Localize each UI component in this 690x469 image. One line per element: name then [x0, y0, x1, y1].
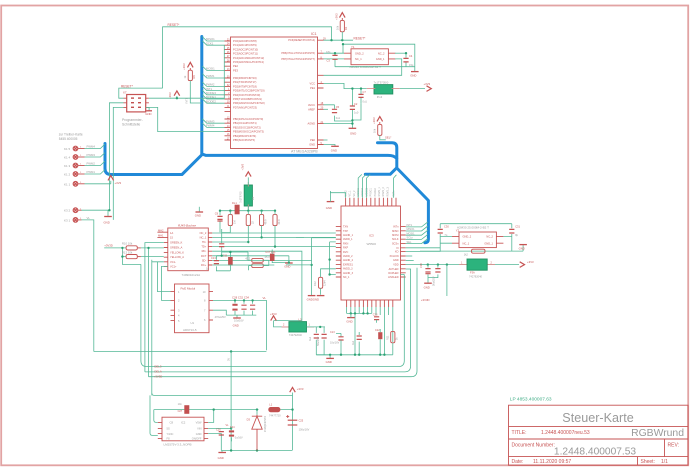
junction bottom row dots: [350, 312, 369, 314]
svg-text:PWM4: PWM4: [206, 124, 215, 128]
svg-text:TXP: TXP: [343, 230, 348, 233]
wire RJ45 pin14 down long vertical DELA: [145, 243, 164, 372]
capacitor C2: [350, 87, 359, 128]
svg-text:C7: C7: [363, 90, 367, 94]
ground symbol GND at X7: [145, 107, 152, 115]
svg-text:YELLOW_A: YELLOW_A: [170, 255, 184, 259]
wire GND pin to bottom rail: [208, 434, 221, 451]
svg-text:56u/25V: 56u/25V: [432, 276, 436, 286]
svg-text:+3V3: +3V3: [372, 117, 376, 124]
wire LDO out to +3V3: [400, 88, 425, 90]
svg-text:TITLE:: TITLE:: [512, 430, 527, 436]
svg-text:AVDD_2: AVDD_2: [343, 255, 353, 258]
svg-text:GND: GND: [326, 360, 332, 364]
wire vertical into LM ONOFF: [150, 395, 158, 435]
supply +3V3 arrow at X7: [168, 91, 180, 99]
ground symbol GND at Y1: [410, 72, 418, 78]
svg-text:PE2: PE2: [233, 64, 238, 68]
capacitor C26: [229, 426, 243, 441]
ground symbol GND pair below R12: [307, 296, 325, 302]
svg-text:IC1: IC1: [311, 32, 317, 36]
svg-text:GND: GND: [410, 73, 416, 77]
ground symbol GND at K3: [104, 217, 112, 225]
wire PE0 stub: [324, 139, 328, 141]
svg-text:MISO: MISO: [392, 230, 398, 233]
wire XCLKIN stub: [406, 255, 413, 257]
svg-text:TD-: TD-: [202, 240, 206, 244]
wire +3V3D to R10 R13: [104, 248, 141, 265]
IC3 left pin names: [343, 226, 354, 279]
svg-text:NC_1: NC_1: [463, 241, 470, 245]
wire net SCK1 from IC1 to bus: [202, 41, 224, 46]
svg-text:470u/25V: 470u/25V: [215, 315, 226, 319]
svg-text:C11: C11: [223, 253, 228, 257]
ground symbol GND below C17b: [326, 354, 334, 364]
wire TD- to IC3 row: [212, 236, 335, 238]
svg-text:PB4(MISO/PCINT4): PB4(MISO/PCINT4): [233, 134, 256, 138]
capacitor C31: [509, 224, 520, 252]
svg-text:SCK1: SCK1: [206, 41, 214, 45]
svg-text:ON/OFF: ON/OFF: [192, 437, 202, 441]
resistor R9 pull-up near X7: [183, 68, 202, 103]
wire caps bottom row to GND: [226, 315, 256, 318]
svg-text:PWM4: PWM4: [87, 145, 96, 149]
svg-text:GNDGND: GNDGND: [307, 297, 319, 301]
wire U1 pin1 left loop: [158, 262, 171, 292]
svg-text:PoE Modul: PoE Modul: [181, 287, 196, 291]
svg-text:A2M30 25.000M-2-B2 T: A2M30 25.000M-2-B2 T: [457, 226, 489, 230]
junction X7 vcc: [176, 97, 178, 99]
fuse F2 body: [239, 177, 255, 210]
wire net +3V3D loop: [149, 268, 418, 379]
capacitor C21b series filled on rail: [178, 403, 190, 414]
ground symbol GND below IC1 area: [326, 191, 335, 210]
connector K3.2: [64, 208, 82, 213]
op IC1 microcontroller body: [231, 37, 318, 149]
svg-text:MOSI1: MOSI1: [206, 67, 215, 71]
svg-text:PWM3: PWM3: [87, 153, 96, 157]
svg-text:PD1(TXD/PCINT17): PD1(TXD/PCINT17): [233, 80, 256, 84]
svg-text:GND: GND: [393, 259, 399, 262]
capacitor C34: [250, 299, 255, 315]
svg-text:RESET*: RESET*: [168, 23, 181, 27]
crystal Y1 body: [344, 45, 395, 69]
svg-text:RXN: RXN: [343, 242, 348, 245]
wire RESET into X7: [119, 88, 163, 98]
wire net PWM1 K1.2 to bus: [85, 170, 105, 175]
ground symbol GND supply: [218, 451, 226, 460]
svg-text:VL: VL: [87, 216, 91, 220]
IC3 right pin names: [388, 226, 399, 279]
svg-text:GND_1: GND_1: [376, 57, 385, 61]
svg-text:R9: R9: [192, 75, 196, 79]
svg-text:10u/16V: 10u/16V: [330, 341, 340, 344]
wire AGND to gnd run: [324, 123, 353, 125]
svg-text:NC_1: NC_1: [355, 57, 362, 61]
wire XTAL1 IC1 to Y1: [324, 52, 345, 54]
svg-text:100u/16V: 100u/16V: [299, 429, 310, 432]
wire supply corner to +3V3 arrow bottom: [152, 393, 293, 395]
svg-text:GND: GND: [218, 456, 224, 460]
svg-text:7x1T9705: 7x1T9705: [239, 191, 243, 203]
svg-text:IC2: IC2: [181, 420, 186, 424]
capacitor C9: [215, 210, 223, 233]
wire net 3V3D stub right of IC3: [446, 265, 448, 296]
capacitor C11 filled: [223, 252, 233, 271]
svg-text:74477720: 74477720: [269, 414, 281, 418]
supply +3V3 arrow at K1.1: [108, 176, 122, 186]
capacitor C13b bottom: [330, 331, 344, 355]
capacitor C4: [395, 52, 414, 67]
svg-text:A2M30 8.000MHZ B2 T: A2M30 8.000MHZ B2 T: [350, 65, 382, 69]
junction C11 top: [221, 255, 223, 257]
bus spur upper knot: [378, 143, 397, 158]
svg-text:GND: GND: [346, 319, 352, 323]
capacitor C8 middle: [219, 237, 224, 252]
ground symbol GND at Y2: [519, 245, 527, 251]
IC1 pin number 29 right: [321, 38, 327, 145]
svg-text:5S: 5S: [167, 427, 170, 431]
capacitor C28: [232, 299, 237, 315]
svg-text:GREEN_K: GREEN_K: [170, 241, 183, 245]
connector K1.5: [64, 146, 85, 151]
svg-text:W5500: W5500: [367, 242, 377, 246]
junction R6 bottom: [274, 245, 276, 247]
wire Y2 bottom to gnd: [420, 236, 523, 251]
inductor DL1 on rail: [232, 201, 240, 214]
svg-text:0u1: 0u1: [363, 100, 368, 104]
svg-text:10u/16V: 10u/16V: [234, 319, 244, 323]
IC3 bottom pin stubs: [347, 300, 393, 307]
wire net RSTn to bus above IC3: [394, 175, 397, 198]
svg-text:LP 4853.400007.63: LP 4853.400007.63: [510, 397, 552, 403]
svg-text:DEL3: DEL3: [154, 364, 161, 368]
junction VSW rail: [213, 408, 215, 410]
resistor R4: [246, 211, 254, 243]
wire net MOSI1 IC3 to bus: [406, 230, 428, 235]
svg-text:MOSI: MOSI: [392, 234, 399, 237]
svg-text:SEL*: SEL*: [385, 136, 392, 140]
svg-text:NC_1: NC_1: [343, 276, 350, 279]
svg-text:12k4: 12k4: [323, 280, 327, 286]
wire net PWM4 from IC1 to bus: [202, 123, 224, 128]
svg-text:C27: C27: [178, 410, 183, 413]
svg-text:PWM2: PWM2: [87, 162, 96, 166]
svg-text:PC4(ADC4/SDA/PCINT12): PC4(ADC4/SDA/PCINT12): [233, 56, 264, 60]
connector K1.4: [64, 155, 85, 160]
svg-text:F2: F2: [251, 196, 255, 200]
svg-text:AGND: AGND: [308, 122, 316, 126]
wire net PWM1 from IC1 to bus: [202, 74, 224, 79]
capacitor C16: [419, 263, 431, 283]
svg-text:K3 1: K3 1: [64, 218, 71, 222]
wire X7 middle pin down-left: [109, 103, 123, 210]
svg-text:SEL: SEL: [407, 240, 412, 244]
svg-text:C3: C3: [327, 59, 331, 63]
capacitor C32: [241, 299, 246, 315]
wire net MODE1 from IC1 to bus: [202, 95, 224, 100]
IC1 left pin stubs: [225, 41, 231, 140]
svg-text:RGBWrund: RGBWrund: [631, 428, 684, 439]
wire RD+ row to network: [212, 251, 302, 252]
svg-text:GND_2: GND_2: [355, 51, 364, 55]
svg-text:GND: GND: [326, 206, 332, 210]
junction rail dots: [229, 210, 276, 212]
svg-text:PC1(ADC1/PCINT9): PC1(ADC1/PCINT9): [233, 43, 257, 47]
ferrite bead L3 body: [282, 318, 315, 337]
svg-text:R13 10k: R13 10k: [122, 250, 133, 254]
svg-text:AVDD_1: AVDD_1: [343, 238, 353, 241]
IC1 right pin stubs: [318, 40, 324, 144]
svg-text:1.2448.400007neu.53: 1.2448.400007neu.53: [541, 430, 590, 436]
resistor R13: [122, 250, 164, 258]
svg-text:+3V3: +3V3: [270, 312, 277, 316]
junction bottom rail dots: [340, 354, 386, 356]
svg-text:R11: R11: [386, 335, 389, 340]
wire net SCK1 IC3 to bus: [406, 234, 428, 239]
junction x311: [310, 264, 312, 266]
capacitor C12 right of L3: [309, 327, 319, 355]
svg-text:PD3(INT1/OC2B/PCINT19): PD3(INT1/OC2B/PCINT19): [233, 89, 265, 93]
regulator U3 ldo body: [367, 80, 400, 99]
svg-text:Y1: Y1: [351, 45, 355, 49]
wire vertical x302 down: [274, 253, 302, 321]
svg-text:+3V3: +3V3: [115, 181, 122, 185]
svg-text:PD5(T1/OC0B/PCINT21): PD5(T1/OC0B/PCINT21): [233, 97, 262, 101]
wire net MISO1 IC3 to bus: [406, 226, 428, 231]
capacitor C22 bottom filled: [375, 329, 382, 355]
svg-text:C17 C21: C17 C21: [265, 250, 276, 254]
wire exres row: [321, 269, 336, 278]
capacitor C20 bottom: [373, 313, 379, 322]
svg-text:GND_2: GND_2: [463, 235, 472, 239]
svg-text:742792040: 742792040: [469, 274, 483, 278]
op IC3 W5500 body: [341, 206, 401, 300]
svg-text:Y1NC: Y1NC: [167, 432, 174, 436]
IC3 top rotated pin names: [344, 187, 395, 197]
svg-text:GND: GND: [104, 221, 110, 225]
wire U1 pin2 left loop: [162, 266, 171, 300]
svg-text:+3V3D: +3V3D: [154, 374, 163, 378]
svg-text:742792040: 742792040: [289, 333, 303, 337]
note text zur Treiber-Karte: [59, 132, 83, 141]
svg-text:MOSI1: MOSI1: [407, 231, 416, 235]
svg-text:+3V3: +3V3: [424, 82, 431, 86]
svg-text:TXN: TXN: [343, 226, 348, 229]
wire network join: [216, 252, 221, 256]
junction R5 bottom: [260, 236, 262, 238]
resistor R1 pull-up: [336, 18, 348, 40]
capacitor C18: [428, 265, 441, 286]
svg-text:EXRES1: EXRES1: [343, 263, 353, 266]
svg-text:AVCC: AVCC: [308, 103, 315, 107]
svg-text:1.2448.400007.53: 1.2448.400007.53: [554, 447, 636, 458]
wire net DEL3 loop: [141, 264, 404, 368]
wire x329 avdd pair: [330, 242, 336, 275]
wire XTAL top loop: [343, 44, 415, 71]
IC1 left pin names: [233, 39, 265, 142]
svg-text:GND: GND: [331, 149, 337, 153]
svg-text:+3V3: +3V3: [182, 63, 186, 70]
resistor R7 oval: [245, 252, 269, 262]
svg-text:YELLOW_K: YELLOW_K: [170, 251, 184, 255]
supply +3V3 arrow above R14: [372, 117, 383, 124]
wire net DELA loop: [145, 269, 411, 374]
supply +3V3 arrow right at LDO: [424, 82, 432, 91]
svg-text:K3 2: K3 2: [64, 209, 71, 213]
capacitor C14 bottom: [352, 332, 362, 355]
svg-text:VSW: VSW: [196, 421, 202, 425]
supply +3V3 arrow at LM output: [290, 387, 304, 450]
junction network: [229, 251, 231, 253]
capacitor C17 filled: [265, 250, 289, 263]
junction AGND: [351, 122, 353, 124]
wire SD row: [212, 255, 289, 257]
svg-text:7499010121A: 7499010121A: [182, 273, 201, 277]
svg-text:PB2(SS/OC1B/PCINT2): PB2(SS/OC1B/PCINT2): [233, 125, 261, 129]
svg-text:LM2575V-3.3_NOPB: LM2575V-3.3_NOPB: [164, 443, 192, 447]
svg-text:+3V3: +3V3: [527, 260, 534, 264]
svg-text:PB1(OC1A/PCINT1): PB1(OC1A/PCINT1): [233, 121, 257, 125]
svg-text:RSVD_3: RSVD_3: [386, 187, 389, 197]
wire C12 C17b bottoms to gnd rail: [316, 354, 330, 356]
svg-text:GND_1: GND_1: [484, 241, 493, 245]
wire TD+ to IC3 row: [212, 232, 335, 234]
svg-text:PC0(ADC0/PCINT8): PC0(ADC0/PCINT8): [233, 39, 257, 43]
svg-text:C13: C13: [330, 331, 335, 334]
wire bottom gnd rail under IC3: [316, 354, 393, 356]
junction VDD row: [427, 263, 449, 265]
svg-text:TD+: TD+: [201, 245, 206, 249]
wire VIN rail y409: [154, 409, 293, 411]
svg-text:+3V3: +3V3: [335, 13, 339, 20]
svg-text:GREEN_A: GREEN_A: [170, 246, 183, 250]
svg-text:DVC: DVC: [343, 251, 348, 254]
svg-text:PD2(INT0/PCINT18): PD2(INT0/PCINT18): [233, 84, 257, 88]
wire RCT tap to R4: [212, 242, 248, 243]
svg-text:+3V3: +3V3: [297, 387, 304, 391]
svg-text:R12: R12: [313, 281, 317, 286]
svg-text:K1 1: K1 1: [64, 182, 71, 186]
resistor R15 horizontal: [464, 249, 485, 256]
supply +3V3 arrow above F2: [240, 163, 251, 176]
svg-text:PB5(SCK/PCINT5): PB5(SCK/PCINT5): [233, 138, 255, 142]
svg-text:RESET*: RESET*: [354, 36, 367, 40]
wire net PWM3 K1.4 to bus: [85, 153, 105, 158]
wire IC3 bottom pins to gnd rail: [347, 307, 393, 355]
svg-text:K1 3: K1 3: [64, 164, 71, 168]
junction RESET-R1: [330, 39, 332, 41]
svg-text:10k: 10k: [373, 128, 377, 133]
svg-text:PE0: PE0: [310, 138, 315, 142]
wire row to x311: [212, 264, 311, 266]
svg-text:0u1: 0u1: [352, 340, 355, 345]
wire long vertical +3V3D branch: [148, 248, 150, 377]
wire bottom gnd rail supply: [221, 450, 292, 452]
svg-text:C13: C13: [211, 256, 216, 260]
svg-text:GND: GND: [196, 432, 202, 436]
supply +3V3 arrow at bead L3: [270, 312, 289, 327]
supply +3V3 arrow above R1: [335, 13, 346, 20]
svg-text:X7: X7: [123, 91, 127, 95]
svg-text:RSVD_1: RSVD_1: [378, 187, 381, 197]
resistor R5: [260, 211, 268, 238]
svg-text:C4: C4: [409, 54, 413, 58]
svg-text:45.3: 45.3: [265, 255, 271, 259]
junction R10 R13 feed: [121, 247, 123, 258]
wire net MODE1 to bus above IC3: [358, 174, 362, 197]
connector K3.1: [64, 218, 82, 223]
svg-text:PWM1: PWM1: [87, 170, 96, 174]
wire VSW up to rail: [208, 410, 214, 423]
svg-text:zur Treiber-Karte: zur Treiber-Karte: [59, 132, 83, 136]
wire net MODE3 from IC1 to bus: [202, 90, 224, 95]
svg-text:C24: C24: [230, 426, 235, 429]
IC3 right pin stubs: [401, 227, 406, 277]
svg-text:RCT: RCT: [201, 254, 207, 258]
svg-text:GND: GND: [350, 132, 356, 136]
wire net SEL IC3 to bus: [406, 239, 428, 244]
svg-text:VC_1: VC_1: [349, 190, 352, 197]
wire net VL from K3.1 down to supply rail: [82, 216, 114, 352]
svg-text:1A: 1A: [170, 231, 173, 235]
svg-text:K1 2: K1 2: [64, 173, 71, 177]
svg-text:Document Number:: Document Number:: [512, 442, 555, 448]
svg-text:DUPLED: DUPLED: [388, 272, 398, 275]
svg-text:D3: D3: [247, 417, 251, 421]
svg-text:K1 5: K1 5: [64, 147, 71, 151]
wire XI XO to Y2: [406, 236, 452, 251]
wire R3 bottom join: [222, 229, 231, 237]
svg-text:MISO1: MISO1: [407, 227, 416, 231]
svg-text:Date:: Date:: [512, 459, 524, 465]
IC1 pin numbers left: [227, 38, 230, 140]
ferrite bead L2 body: [459, 259, 495, 278]
svg-text:DL1: DL1: [232, 201, 237, 205]
ground symbol GND above RJ45: [195, 207, 203, 218]
svg-text:R1: R1: [344, 26, 348, 30]
svg-text:XCLKIN: XCLKIN: [389, 255, 398, 258]
wire middle row y252: [222, 251, 248, 253]
capacitor C3: [326, 50, 338, 67]
svg-text:C26: C26: [216, 429, 221, 432]
svg-text:PD6(AIN0/OC0A/PCINT22): PD6(AIN0/OC0A/PCINT22): [233, 101, 265, 105]
svg-text:PB6(XTAL1/TOSC1/PCINT6): PB6(XTAL1/TOSC1/PCINT6): [281, 51, 315, 55]
connector J1 RJ45 jack body: [157, 224, 212, 278]
connector K1.3: [64, 163, 85, 168]
svg-text:INTn: INTn: [393, 226, 399, 229]
capacitor C7: [358, 87, 367, 103]
connector K1.1: [64, 182, 85, 187]
svg-text:INT1: INT1: [184, 97, 188, 103]
wire vertical x311 down to gnd: [296, 237, 336, 295]
svg-text:DELA: DELA: [154, 370, 161, 374]
svg-text:0u1: 0u1: [309, 336, 312, 341]
wire net MOSI1 from IC1 to bus: [202, 66, 224, 71]
resistor R10: [122, 241, 164, 250]
op IC2 regulator LM2575 body: [158, 417, 208, 446]
svg-text:PROG1: PROG1: [370, 187, 373, 196]
wire net RESET at IC1 pin 29: [324, 39, 354, 41]
svg-text:AREF: AREF: [308, 107, 315, 111]
svg-text:1u0: 1u0: [354, 111, 359, 115]
svg-text:SCLK: SCLK: [392, 238, 399, 241]
svg-text:GND: GND: [424, 285, 430, 289]
svg-text:NC_1: NC_1: [200, 235, 207, 239]
junction K3.2 X7 gnd: [108, 209, 110, 211]
wire RC+ row: [212, 259, 311, 261]
svg-text:NC_2: NC_2: [378, 51, 385, 55]
